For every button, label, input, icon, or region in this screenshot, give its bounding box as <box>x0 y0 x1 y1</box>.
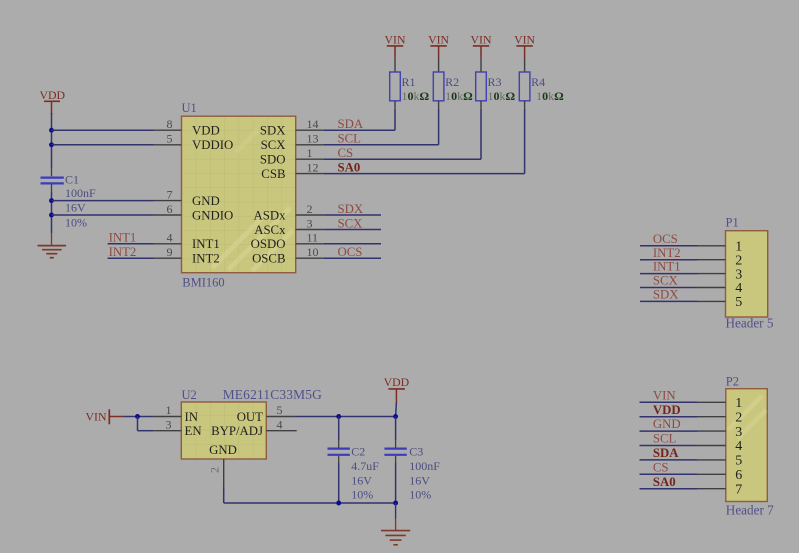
svg-text:3: 3 <box>307 216 313 230</box>
capacitor C1 <box>41 178 64 184</box>
U1 pin 14 stub <box>296 129 324 131</box>
svg-text:16V: 16V <box>65 201 86 215</box>
U2 pin 2 stub (GND) <box>223 459 225 487</box>
resistor R2 pin top <box>438 58 440 72</box>
P2 pin 1 stub <box>698 401 726 403</box>
svg-text:14: 14 <box>307 117 319 131</box>
U1 pin 6 stub <box>154 214 182 216</box>
svg-text:OSDO: OSDO <box>251 237 286 251</box>
svg-text:VDD: VDD <box>384 375 410 389</box>
wire C2 branch upper <box>338 417 340 441</box>
wire SDA/SCL/CS/SA0 run 2 horizontal <box>324 144 439 146</box>
svg-text:GND: GND <box>192 194 220 208</box>
power port VDD (top left) <box>40 88 66 115</box>
svg-text:OSCB: OSCB <box>252 252 285 266</box>
svg-text:BMI160: BMI160 <box>182 276 224 290</box>
svg-text:VIN: VIN <box>514 33 535 47</box>
svg-text:2: 2 <box>307 202 313 216</box>
svg-text:GND: GND <box>209 443 237 457</box>
svg-text:12: 12 <box>307 160 319 174</box>
P2 pin 2 stub <box>698 416 726 418</box>
ground symbol (upper left) <box>38 233 67 258</box>
voltage regulator U2 body <box>181 402 266 459</box>
svg-text:1: 1 <box>307 146 313 160</box>
svg-text:C1: C1 <box>65 172 79 186</box>
svg-text:SCL: SCL <box>338 132 362 146</box>
wire junction down to EN row <box>137 417 139 431</box>
junction GND-pin6 <box>49 213 54 218</box>
wire GND rail lower segment <box>51 192 53 233</box>
wire P1 net SCX <box>640 287 698 289</box>
wire P1 net INT2 <box>640 259 698 261</box>
svg-text:OCS: OCS <box>653 232 678 246</box>
svg-text:6: 6 <box>167 202 173 216</box>
wire resistor R2 vertical <box>438 109 440 145</box>
wire P2 net VDD <box>640 416 698 418</box>
svg-text:5: 5 <box>277 403 283 417</box>
svg-text:GNDIO: GNDIO <box>192 208 233 222</box>
op-amp U1 body (BMI160 rectangle) <box>182 116 296 273</box>
wire VDD rail upper segment <box>51 113 53 169</box>
svg-text:2: 2 <box>735 253 742 268</box>
svg-text:4: 4 <box>735 439 742 454</box>
wire P1 net OCS <box>640 245 698 247</box>
svg-text:P1: P1 <box>726 215 739 229</box>
svg-text:OUT: OUT <box>237 410 263 424</box>
power port VIN 3 <box>471 33 492 59</box>
svg-text:ME6211C33M5G: ME6211C33M5G <box>223 387 322 402</box>
svg-text:1: 1 <box>735 240 742 255</box>
wire C3 branch lower <box>395 463 397 503</box>
power port VDD (bottom) <box>384 375 410 403</box>
svg-text:SDA: SDA <box>338 117 364 131</box>
P1 pin 5 stub <box>698 300 726 302</box>
svg-text:SA0: SA0 <box>338 160 361 174</box>
U2 pin 3 stub <box>153 430 181 432</box>
svg-text:2: 2 <box>735 410 742 425</box>
svg-text:CS: CS <box>338 146 354 160</box>
svg-text:10%: 10% <box>65 215 87 229</box>
capacitor C3 <box>384 449 406 455</box>
U1 pin 5 stub <box>154 144 182 146</box>
U1 pin 12 stub <box>296 173 324 175</box>
svg-text:SDX: SDX <box>653 288 679 302</box>
wire SDA/SCL/CS/SA0 run 3 horizontal <box>324 158 481 160</box>
svg-text:U1: U1 <box>182 101 197 115</box>
U1 pin 2 stub <box>296 214 324 216</box>
svg-text:Header 7: Header 7 <box>726 503 774 518</box>
svg-text:INT1: INT1 <box>653 260 681 274</box>
svg-text:6: 6 <box>735 468 742 483</box>
P2 pin 6 stub <box>698 473 726 475</box>
wire VIN to junction <box>123 416 154 418</box>
wire C2 branch lower <box>338 463 340 503</box>
svg-text:R3: R3 <box>488 75 502 89</box>
resistor R1 <box>390 72 401 101</box>
svg-text:10kΩ: 10kΩ <box>488 89 516 103</box>
power port VIN 2 <box>428 33 449 59</box>
svg-text:SCX: SCX <box>261 138 287 152</box>
capacitor C2 <box>328 449 350 455</box>
svg-text:4: 4 <box>167 231 173 245</box>
svg-text:16V: 16V <box>351 474 372 488</box>
P2 pin 3 stub <box>698 430 726 432</box>
junction VDD-pin8 <box>49 128 54 133</box>
svg-text:16V: 16V <box>409 474 430 488</box>
wire GND to pin 6 <box>52 214 154 216</box>
wire VDD to pin 5 <box>52 144 154 146</box>
svg-text:SCL: SCL <box>653 432 677 446</box>
svg-text:VDD: VDD <box>653 403 681 417</box>
U1 pin 4 stub <box>154 243 182 245</box>
svg-text:5: 5 <box>735 295 742 310</box>
svg-text:ASDx: ASDx <box>254 208 287 222</box>
capacitor C1 pin top <box>51 169 53 177</box>
resistor R4 <box>519 72 530 101</box>
svg-text:7: 7 <box>167 187 173 201</box>
svg-text:SDX: SDX <box>338 202 364 216</box>
U1 pin 13 stub <box>296 144 324 146</box>
wire INT2 <box>108 257 154 259</box>
wire P2 net VIN <box>640 401 698 403</box>
svg-text:INT2: INT2 <box>109 245 137 259</box>
P2 pin 4 stub <box>698 445 726 447</box>
svg-text:VIN: VIN <box>653 388 676 402</box>
junction VIN split <box>135 414 140 419</box>
svg-text:9: 9 <box>167 245 173 259</box>
resistor R2 pin bottom <box>438 101 440 109</box>
svg-text:INT2: INT2 <box>653 246 681 260</box>
junction GND-pin7 <box>49 198 54 203</box>
U1 pin 10 stub <box>296 257 324 259</box>
U2 pin 5 stub <box>266 416 294 418</box>
connector P2 body <box>726 389 768 502</box>
wire bottom GND rail <box>224 502 396 504</box>
svg-text:CSB: CSB <box>261 167 285 181</box>
U1 pin 1 stub <box>296 158 324 160</box>
junction OUT-C2 <box>336 414 341 419</box>
wire VDD to pin 8 <box>52 129 154 131</box>
wire P2 net SCL <box>640 445 698 447</box>
wire net row y229.5 <box>324 229 381 231</box>
wire net row y243.8 <box>324 243 381 245</box>
svg-text:3: 3 <box>166 417 172 431</box>
resistor R3 <box>476 72 487 101</box>
wire P1 net SDX <box>640 300 698 302</box>
svg-text:SDA: SDA <box>653 446 679 460</box>
wire GND drop <box>223 487 225 503</box>
svg-text:VIN: VIN <box>471 33 492 47</box>
wire P1 net INT1 <box>640 273 698 275</box>
svg-text:SCX: SCX <box>653 274 679 288</box>
resistor R1 pin top <box>394 58 396 72</box>
P2 pin 7 stub <box>698 488 726 490</box>
U1 pin 9 stub <box>154 257 182 259</box>
svg-text:7: 7 <box>735 482 742 497</box>
wire net row y258.2 <box>324 257 381 259</box>
svg-text:IN: IN <box>185 410 199 424</box>
wire resistor R1 vertical <box>394 109 396 130</box>
svg-text:C2: C2 <box>351 445 365 459</box>
connector P1 body <box>726 231 768 317</box>
svg-text:10%: 10% <box>409 487 431 501</box>
wire net row y215.0 <box>324 214 381 216</box>
wire resistor R3 vertical <box>480 109 482 159</box>
svg-text:VIN: VIN <box>86 410 107 424</box>
svg-text:11: 11 <box>307 231 319 245</box>
svg-text:5: 5 <box>735 454 742 469</box>
svg-text:R4: R4 <box>531 75 545 89</box>
resistor R2 <box>433 72 444 101</box>
svg-text:3: 3 <box>735 425 742 440</box>
svg-text:VDD: VDD <box>192 124 220 138</box>
wire P2 net GND <box>640 430 698 432</box>
svg-text:10kΩ: 10kΩ <box>536 89 564 103</box>
svg-text:4: 4 <box>277 417 283 431</box>
U2 pin 1 stub <box>153 416 181 418</box>
svg-text:1: 1 <box>166 403 172 417</box>
svg-text:INT2: INT2 <box>192 252 220 266</box>
power port VIN (regulator input) <box>86 409 123 424</box>
svg-text:SDX: SDX <box>260 124 286 138</box>
svg-text:VDDIO: VDDIO <box>192 138 233 152</box>
svg-text:VIN: VIN <box>428 33 449 47</box>
svg-text:10%: 10% <box>351 487 373 501</box>
wire P2 net SDA <box>640 459 698 461</box>
svg-text:8: 8 <box>167 117 173 131</box>
junction rail-C3 bottom <box>393 501 398 506</box>
resistor R1 pin bottom <box>394 101 396 109</box>
U1 pin 8 stub <box>154 129 182 131</box>
svg-text:SDO: SDO <box>260 153 286 167</box>
svg-text:C3: C3 <box>409 445 423 459</box>
svg-text:P2: P2 <box>726 375 739 389</box>
svg-text:3: 3 <box>735 267 742 282</box>
svg-text:Header 5: Header 5 <box>726 316 774 331</box>
capacitor C3 pin bottom <box>395 456 397 463</box>
wire OUT rail <box>294 416 395 418</box>
svg-text:10kΩ: 10kΩ <box>445 89 473 103</box>
power port VIN 1 <box>385 33 406 59</box>
junction OUT-VDD-C3 <box>393 414 398 419</box>
P1 pin 4 stub <box>698 287 726 289</box>
wire GND to pin 7 <box>52 200 154 202</box>
resistor R4 pin bottom <box>524 101 526 109</box>
svg-text:CS: CS <box>653 460 669 474</box>
svg-text:GND: GND <box>653 417 681 431</box>
capacitor C2 pin top <box>338 440 340 448</box>
svg-text:100nF: 100nF <box>409 459 440 473</box>
capacitor C2 pin bottom <box>338 456 340 463</box>
wire INT1 <box>108 243 154 245</box>
wire resistor R4 vertical <box>524 109 526 174</box>
wire P2 net CS <box>640 473 698 475</box>
svg-text:INT1: INT1 <box>192 237 220 251</box>
U2 pin 4 stub (BYP/ADJ, open) <box>266 430 296 432</box>
svg-text:13: 13 <box>307 132 319 146</box>
svg-text:OCS: OCS <box>338 245 363 259</box>
svg-text:U2: U2 <box>182 388 197 402</box>
svg-text:INT1: INT1 <box>109 231 137 245</box>
P1 pin 2 stub <box>698 259 726 261</box>
junction rail-C2 bottom <box>336 501 341 506</box>
svg-text:5: 5 <box>167 132 173 146</box>
junction VDD-pin5 <box>49 142 54 147</box>
P1 pin 3 stub <box>698 273 726 275</box>
svg-text:1: 1 <box>735 396 742 411</box>
svg-text:ASCx: ASCx <box>254 223 286 237</box>
svg-text:100nF: 100nF <box>65 186 96 200</box>
svg-text:R2: R2 <box>445 75 459 89</box>
resistor R3 pin bottom <box>480 101 482 109</box>
capacitor C1 pin bottom <box>51 185 53 193</box>
svg-text:SA0: SA0 <box>653 475 676 489</box>
wire SDA/SCL/CS/SA0 run 1 horizontal <box>324 129 395 131</box>
U1 pin 3 stub <box>296 229 324 231</box>
P2 pin 5 stub <box>698 459 726 461</box>
svg-text:2: 2 <box>208 467 222 473</box>
svg-text:10: 10 <box>307 245 319 259</box>
svg-text:R1: R1 <box>402 75 416 89</box>
ground symbol (bottom) <box>381 503 410 545</box>
svg-text:EN: EN <box>185 424 202 438</box>
capacitor C3 pin top <box>395 440 397 448</box>
wire VDD stem to OUT rail <box>395 403 398 417</box>
U1 pin 7 stub <box>154 200 182 202</box>
P1 pin 1 stub <box>698 245 726 247</box>
svg-text:VIN: VIN <box>385 33 406 47</box>
wire C3 branch upper <box>395 417 397 441</box>
U1 pin 11 stub <box>296 243 324 245</box>
svg-text:BYP/ADJ: BYP/ADJ <box>211 424 263 438</box>
svg-text:10kΩ: 10kΩ <box>402 89 430 103</box>
svg-text:VDD: VDD <box>40 88 66 102</box>
resistor R4 pin top <box>524 58 526 72</box>
svg-text:SCX: SCX <box>338 216 364 230</box>
resistor R3 pin top <box>480 58 482 72</box>
wire SDA/SCL/CS/SA0 run 4 horizontal <box>324 173 525 175</box>
power port VIN 4 <box>514 33 535 59</box>
svg-text:4: 4 <box>735 281 742 296</box>
svg-text:4.7uF: 4.7uF <box>351 459 379 473</box>
wire P2 net SA0 <box>640 488 698 490</box>
